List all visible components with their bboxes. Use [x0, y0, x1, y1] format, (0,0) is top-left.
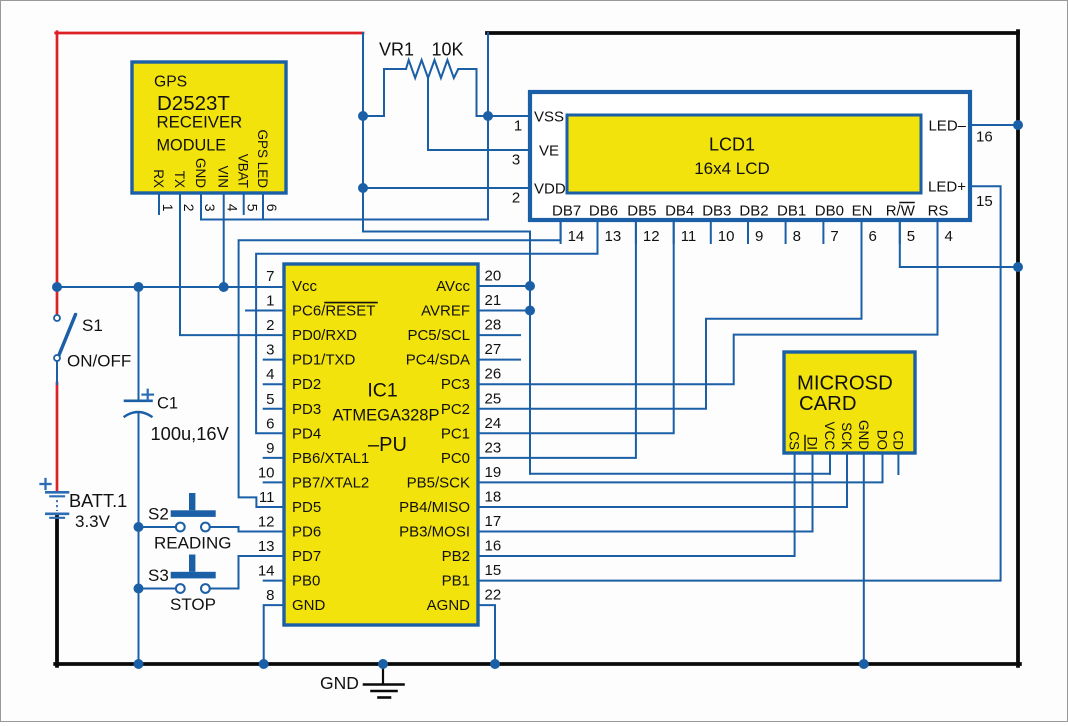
svg-text:PB3/MOSI: PB3/MOSI: [399, 524, 470, 541]
node: microSD GND on bottom rail: [859, 659, 869, 669]
svg-text:VBAT: VBAT: [236, 154, 251, 188]
svg-text:13: 13: [605, 228, 622, 245]
svg-text:15: 15: [976, 193, 993, 210]
wire: S3 to IC pin: [210, 556, 284, 588]
svg-text:4: 4: [945, 228, 953, 245]
svg-text:14: 14: [258, 563, 275, 580]
wire: VDD row to LCD pin 2: [363, 187, 530, 189]
svg-text:16: 16: [976, 129, 993, 146]
GPS pin 5 VBAT stub: [243, 193, 245, 214]
svg-text:BATT.1: BATT.1: [69, 491, 127, 511]
LCD pin DB0 stub: [822, 220, 824, 243]
wire: LCD DB5 to IC PC0 (pin 23): [478, 220, 636, 458]
svg-text:5: 5: [245, 204, 261, 212]
IC1 pin 27 stub: [478, 359, 520, 361]
svg-text:PC0: PC0: [441, 450, 470, 467]
svg-text:RX: RX: [151, 169, 166, 188]
svg-text:27: 27: [485, 341, 502, 358]
svg-text:GPS: GPS: [154, 74, 187, 91]
svg-text:DB6: DB6: [589, 203, 618, 220]
LCD pin DB3 stub: [710, 220, 712, 243]
GPS pin 3 GND stub down to GND line: [200, 193, 202, 220]
svg-text:MODULE: MODULE: [157, 137, 227, 155]
wire: IC1 pin 22 AGND to bottom rail: [478, 605, 495, 664]
svg-text:6: 6: [869, 228, 877, 245]
svg-text:READING: READING: [154, 534, 231, 553]
svg-text:AVcc: AVcc: [436, 278, 470, 295]
svg-text:PD2: PD2: [292, 376, 321, 393]
svg-text:8: 8: [793, 228, 801, 245]
svg-text:PB7/XTAL2: PB7/XTAL2: [292, 474, 369, 491]
svg-text:7: 7: [266, 268, 274, 285]
wire: C1 bottom lead to GND rail: [138, 412, 140, 664]
svg-text:S2: S2: [148, 505, 169, 524]
wire: +3.3V from S1 bottom to battery plus (red): [56, 383, 59, 491]
wire: LCD RS to IC PC3 (pin 26): [478, 220, 938, 384]
svg-text:IC1: IC1: [367, 380, 397, 402]
wire: C1 top lead from rail: [138, 287, 140, 400]
LCD1 screen: [567, 115, 921, 193]
svg-text:ATMEGA328P: ATMEGA328P: [333, 407, 440, 425]
node: S3 on C1 column: [134, 584, 144, 594]
svg-text:RECEIVER: RECEIVER: [157, 113, 243, 132]
svg-text:4: 4: [225, 204, 241, 212]
wire: VR1 wiper down to LCD VE row: [427, 78, 429, 150]
svg-text:S1: S1: [82, 316, 103, 335]
svg-text:GND: GND: [320, 673, 359, 693]
battery BATT.1 plus sign: [41, 483, 51, 485]
svg-text:ON/OFF: ON/OFF: [67, 352, 131, 371]
svg-text:12: 12: [643, 228, 660, 245]
svg-text:PD1/TXD: PD1/TXD: [292, 352, 356, 369]
ground symbol bar 1: [364, 683, 404, 686]
svg-text:Vcc: Vcc: [292, 278, 318, 295]
LCD1 outer box: [530, 92, 970, 220]
wire: VR1 right lead down to VSS row: [458, 69, 476, 116]
wire: GND loop top (thick black): [487, 31, 1018, 35]
wire: LCD R/W to GND right border: [900, 220, 1018, 267]
ground symbol stem: [382, 664, 384, 684]
svg-text:PC2: PC2: [441, 401, 470, 418]
svg-text:16x4 LCD: 16x4 LCD: [694, 159, 770, 178]
svg-text:PB2: PB2: [442, 548, 470, 565]
wire: IC1 pin 8 GND to bottom rail: [264, 605, 284, 664]
wire: microSD SCK to IC PB4/MISO (pin 18): [478, 453, 847, 507]
capacitor C1 bottom curved plate: [125, 412, 152, 417]
svg-text:1: 1: [266, 293, 274, 310]
node: AVcc on +3.3 col: [525, 281, 535, 291]
svg-text:PC6/RESET: PC6/RESET: [292, 303, 375, 320]
node: VR1 left on col 362: [358, 111, 368, 121]
svg-text:9: 9: [266, 440, 274, 457]
svg-text:15: 15: [485, 562, 502, 579]
wire: +3.3V feed horizontal to microSD VCC: [530, 473, 830, 475]
svg-text:PC3: PC3: [441, 376, 470, 393]
LCD pin RS stub: [937, 220, 939, 243]
svg-text:PD5: PD5: [292, 499, 321, 516]
svg-text:DB2: DB2: [739, 203, 768, 220]
svg-text:DB7: DB7: [552, 203, 581, 220]
svg-text:CD: CD: [890, 431, 905, 451]
switch S3 bar: [171, 572, 216, 579]
IC1 pin 5 stub: [264, 408, 284, 410]
svg-text:STOP: STOP: [170, 595, 216, 614]
svg-text:8: 8: [266, 587, 274, 604]
wire: GPS pin 2 TX down to IC PD0 row: [180, 193, 284, 335]
LCD pin R/W stub: [899, 220, 901, 243]
wire: S2 left wire from C1 column: [139, 526, 176, 528]
svg-text:11: 11: [681, 228, 697, 245]
svg-text:PC5/SCL: PC5/SCL: [407, 327, 470, 344]
LCD pin DB7 stub: [560, 220, 562, 243]
wire: VE row wiper to LCD pin 3: [428, 149, 530, 151]
svg-text:PD0/RXD: PD0/RXD: [292, 327, 357, 344]
svg-text:5: 5: [266, 391, 274, 408]
svg-text:9: 9: [755, 228, 763, 245]
svg-text:LED–: LED–: [928, 118, 966, 135]
switch S3 stem: [189, 555, 195, 572]
svg-text:PD4: PD4: [292, 425, 321, 442]
battery BATT.1 dotted middle: [56, 500, 58, 511]
wire: LCD DB7 to IC PD5 (pin 11): [239, 220, 561, 507]
battery BATT.1 long plate 2: [46, 512, 68, 515]
svg-text:2: 2: [512, 190, 520, 207]
wire: GND loop right side (thick black): [1016, 31, 1020, 666]
node: VSS junction col 488: [483, 111, 493, 121]
switch S1 lever: [59, 315, 76, 356]
battery BATT.1 long plate 1: [46, 491, 68, 494]
svg-text:PD7: PD7: [292, 548, 321, 565]
svg-text:GND: GND: [292, 597, 326, 614]
wire: IC AVREF pin 21 to +3.3V col: [478, 310, 530, 312]
wire: +3.3V top horizontal (red): [56, 32, 363, 35]
capacitor C1 top plate: [125, 399, 152, 402]
node: LED- on right GND border: [1013, 120, 1023, 130]
svg-text:CS: CS: [787, 431, 802, 450]
svg-text:14: 14: [568, 228, 585, 245]
LCD pin DB2 stub: [747, 220, 749, 243]
wire: VDD net col x=362 down and right to col x=530: [363, 188, 530, 232]
svg-text:17: 17: [485, 513, 502, 530]
label C1 plus: [143, 394, 154, 396]
svg-text:100u,16V: 100u,16V: [151, 423, 230, 444]
microSD DI underline: [804, 436, 806, 451]
wire: S1 bottom contact stub (blue): [56, 361, 58, 384]
svg-text:3: 3: [202, 204, 218, 212]
wire: GND loop left lower segment battery minus to bottom rail (black): [55, 517, 59, 666]
svg-text:GND: GND: [193, 158, 208, 188]
wire: GPS pin 6 GPS LED down to GND line: [262, 193, 264, 220]
svg-text:6: 6: [266, 415, 274, 432]
LCD pin DB5 stub: [635, 220, 637, 243]
wire: col x=362 VR1 node to VDD node: [362, 116, 364, 188]
svg-text:DB4: DB4: [665, 203, 694, 220]
IC1 pin 10 stub: [264, 481, 284, 483]
svg-text:S3: S3: [148, 566, 169, 585]
svg-text:PD3: PD3: [292, 401, 321, 418]
svg-text:R/W: R/W: [886, 203, 916, 220]
svg-text:23: 23: [485, 439, 502, 456]
wire: IC AVcc pin 20 to +3.3V col: [478, 285, 530, 287]
microSD CD stub: [897, 453, 899, 474]
GPS receiver module box: [132, 62, 286, 193]
resistor VR1 zigzag: [406, 60, 458, 78]
svg-text:5: 5: [907, 228, 915, 245]
IC1 pin 9 stub: [264, 457, 284, 459]
svg-text:DO: DO: [875, 430, 890, 450]
svg-text:4: 4: [266, 366, 274, 383]
wire: microSD DO to IC PB5/SCK (pin 19): [478, 453, 883, 482]
wire: GND drop from black top to GPS GND line (col x=488): [487, 33, 489, 220]
wire: GND loop bottom rail (thick black): [55, 662, 1020, 666]
node: AVREF on +3.3 col: [525, 306, 535, 316]
LCD pin DB6 stub: [597, 220, 599, 243]
LCD pin EN stub: [861, 220, 863, 243]
svg-text:CARD: CARD: [799, 393, 856, 415]
MICROSD CARD box: [784, 352, 915, 453]
ground symbol bar 2: [372, 690, 397, 693]
node: IC GND on bottom rail: [259, 659, 269, 669]
svg-text:PC4/SDA: PC4/SDA: [406, 352, 470, 369]
svg-text:EN: EN: [852, 203, 873, 220]
IC1 pin 3 stub: [264, 359, 284, 361]
svg-text:MICROSD: MICROSD: [797, 373, 893, 395]
switch S2 bar: [171, 510, 216, 517]
svg-text:TX: TX: [172, 171, 187, 188]
battery BATT.1 short plate 1: [50, 495, 64, 497]
svg-text:VDD: VDD: [534, 181, 566, 198]
svg-text:GPS LED: GPS LED: [255, 129, 270, 188]
wire: microSD VCC to +3.3V feed: [829, 453, 831, 474]
node: ground symbol on bottom rail: [378, 659, 388, 669]
svg-text:VR1: VR1: [379, 40, 414, 60]
svg-text:VCC: VCC: [822, 421, 837, 450]
svg-text:PB1: PB1: [442, 573, 470, 590]
IC1 pin 1 stub: [246, 310, 284, 312]
svg-text:DB5: DB5: [627, 203, 656, 220]
svg-text:PB6/XTAL1: PB6/XTAL1: [292, 450, 369, 467]
svg-text:DI: DI: [805, 437, 820, 451]
node: C1 on bottom rail: [134, 659, 144, 669]
wire: LCD DB4 to IC PC1 (pin 24): [478, 220, 674, 433]
LCD R/W overline over W: [900, 202, 914, 204]
IC1 pin 14 stub: [264, 580, 284, 582]
svg-text:PB4/MISO: PB4/MISO: [399, 499, 470, 516]
LCD pin DB4 stub: [673, 220, 675, 243]
wire: GND horizontal GPS pin3 to col x=488: [201, 219, 488, 221]
wire: blue drop from red corner down col x=362: [362, 33, 364, 116]
svg-text:11: 11: [259, 489, 275, 506]
svg-text:25: 25: [485, 390, 502, 407]
wire: microSD GND to bottom rail: [863, 453, 865, 664]
wire: LCD DB6 to IC PD4 (pin 6): [256, 220, 597, 433]
svg-text:19: 19: [485, 464, 502, 481]
IC1 pin 4 stub: [264, 383, 284, 385]
svg-text:2: 2: [181, 204, 197, 212]
svg-text:10K: 10K: [431, 40, 463, 60]
svg-text:10: 10: [718, 228, 735, 245]
node: VDD on col 362: [358, 183, 368, 193]
svg-text:RS: RS: [928, 203, 949, 220]
svg-text:LED+: LED+: [928, 179, 966, 196]
svg-text:3: 3: [512, 152, 520, 169]
switch S1 top contact: [54, 315, 60, 321]
switch S2 stem: [189, 493, 195, 510]
svg-text:28: 28: [485, 317, 502, 334]
IC1 pin 28 stub: [478, 334, 520, 336]
svg-text:PB5/SCK: PB5/SCK: [407, 474, 470, 491]
wire: LCD EN to IC PC2 (pin 25): [478, 220, 862, 409]
wire: GPS pin 4 VIN down to Vcc rail: [223, 193, 225, 287]
node: AGND on bottom rail: [490, 659, 500, 669]
svg-text:VSS: VSS: [534, 109, 564, 126]
svg-text:SCK: SCK: [839, 422, 854, 450]
svg-text:10: 10: [258, 464, 275, 481]
wire: microSD CS to IC PB2 (pin 16): [478, 453, 795, 556]
wire: S3 left wire from C1 column: [139, 588, 176, 590]
wire: +3.3V col x=530 down past AVcc AVREF to microSD VCC feed: [529, 232, 531, 474]
svg-text:20: 20: [485, 268, 502, 285]
svg-text:18: 18: [485, 488, 502, 505]
switch S3 right contact: [201, 584, 210, 593]
svg-text:2: 2: [266, 317, 274, 334]
svg-text:24: 24: [485, 415, 502, 432]
svg-text:DB3: DB3: [702, 203, 731, 220]
svg-text:21: 21: [485, 292, 502, 309]
svg-text:VE: VE: [539, 143, 559, 160]
IC1 RESET overline: [325, 302, 377, 304]
svg-text:16: 16: [485, 538, 502, 555]
node: rail x GPS VIN: [219, 282, 229, 292]
GPS pin 1 RX stub: [158, 193, 160, 214]
node: R/W on right GND border: [1013, 262, 1023, 272]
IC U1 ATMEGA328P box: [284, 264, 478, 625]
svg-text:6: 6: [264, 204, 280, 212]
svg-text:1: 1: [160, 204, 176, 212]
switch S2 right contact: [201, 523, 210, 532]
switch S2 left contact: [176, 523, 185, 532]
svg-text:26: 26: [485, 366, 502, 383]
node: rail x red left: [52, 282, 62, 292]
wire: +3.3V left vertical from top to S1 (red): [56, 32, 59, 315]
wire: LCD LED+ to IC PB1 (pin 15): [478, 186, 1001, 580]
svg-text:13: 13: [258, 538, 275, 555]
node: rail x C1: [134, 282, 144, 292]
wire: VR1 left lead to +3.3V col: [363, 69, 406, 116]
battery BATT.1 short plate 2: [50, 517, 64, 519]
svg-text:GND: GND: [856, 420, 871, 450]
svg-text:LCD1: LCD1: [709, 135, 755, 155]
svg-text:PC1: PC1: [441, 425, 470, 442]
switch S1 bottom contact: [54, 355, 60, 361]
wire: Vcc rail to IC pin 7: [57, 286, 284, 288]
svg-text:12: 12: [258, 514, 275, 531]
svg-text:AGND: AGND: [427, 597, 471, 614]
svg-text:VIN: VIN: [216, 165, 231, 188]
svg-text:PB0: PB0: [292, 573, 320, 590]
svg-text:7: 7: [830, 228, 838, 245]
switch S3 left contact: [176, 584, 185, 593]
ground symbol bar 3: [379, 696, 391, 699]
svg-text:3.3V: 3.3V: [75, 512, 111, 531]
svg-text:DB0: DB0: [815, 203, 844, 220]
svg-text:–PU: –PU: [368, 434, 407, 456]
wire: LCD LED- to GND right border: [970, 124, 1018, 126]
svg-text:DB1: DB1: [777, 203, 806, 220]
wire: VSS row from VR1 drop to LCD pin 1: [477, 115, 531, 117]
svg-text:AVREF: AVREF: [421, 303, 470, 320]
wire: microSD DI to IC PB3/MOSI (pin 17): [478, 453, 813, 532]
node: S2 on C1 column: [134, 522, 144, 532]
svg-text:C1: C1: [157, 395, 178, 413]
svg-text:PD6: PD6: [292, 524, 321, 541]
svg-text:3: 3: [266, 342, 274, 359]
LCD pin DB1 stub: [785, 220, 787, 243]
wire: S2 to IC pin: [210, 527, 284, 532]
svg-text:1: 1: [514, 118, 522, 135]
svg-text:22: 22: [485, 587, 502, 604]
